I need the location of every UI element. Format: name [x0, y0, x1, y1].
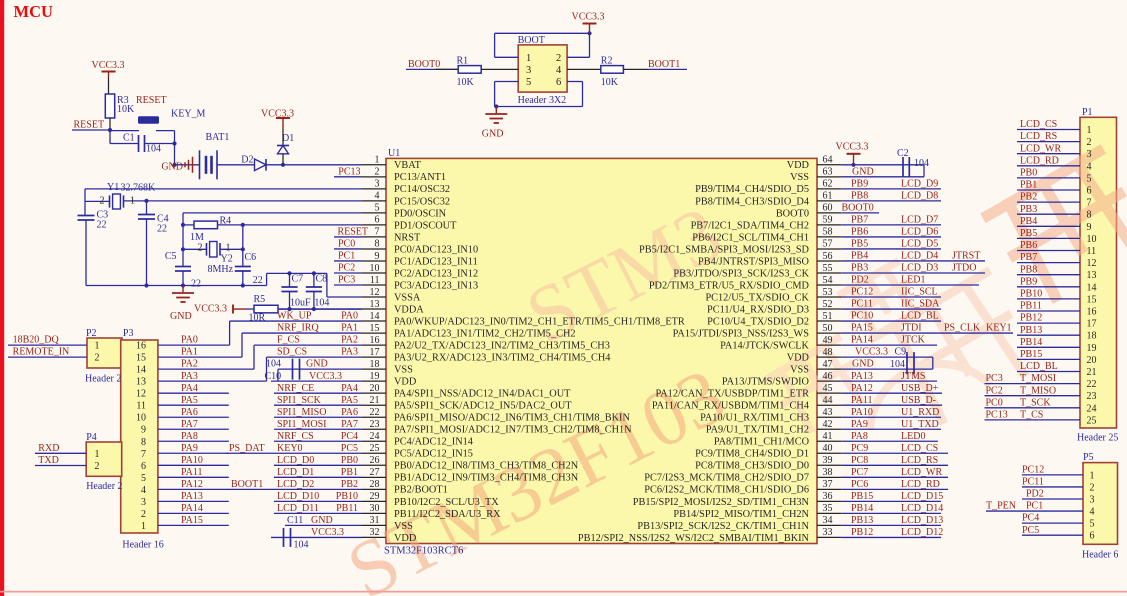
svg-text:LCD_D1: LCD_D1 — [277, 467, 314, 478]
svg-text:PA3: PA3 — [181, 371, 198, 382]
svg-text:LCD_BL: LCD_BL — [1020, 361, 1058, 372]
svg-text:LCD_BL: LCD_BL — [901, 311, 939, 322]
svg-text:PB14: PB14 — [1020, 337, 1042, 348]
svg-text:52: 52 — [823, 299, 833, 310]
svg-text:64: 64 — [823, 155, 833, 166]
svg-text:PA0: PA0 — [181, 335, 198, 346]
svg-text:P5: P5 — [1083, 452, 1094, 463]
svg-text:PC9/TIM8_CH4/SDIO_D1: PC9/TIM8_CH4/SDIO_D1 — [695, 449, 809, 460]
svg-text:PB8: PB8 — [851, 190, 868, 201]
svg-text:PB9: PB9 — [1020, 276, 1037, 287]
svg-text:PB9/TIM4_CH4/SDIO_D5: PB9/TIM4_CH4/SDIO_D5 — [695, 184, 809, 195]
svg-text:Header 3X2: Header 3X2 — [518, 95, 567, 106]
svg-text:PC7: PC7 — [851, 467, 868, 478]
svg-text:18: 18 — [370, 359, 380, 370]
svg-text:7: 7 — [141, 449, 146, 460]
svg-text:2: 2 — [95, 353, 100, 364]
svg-text:32: 32 — [370, 527, 380, 538]
svg-text:R5: R5 — [254, 294, 266, 305]
svg-text:PA8: PA8 — [851, 431, 868, 442]
svg-text:15: 15 — [370, 323, 380, 334]
svg-text:7: 7 — [375, 227, 380, 238]
svg-text:10K: 10K — [117, 104, 135, 115]
svg-text:22: 22 — [191, 279, 201, 290]
svg-text:Header 2: Header 2 — [86, 481, 122, 492]
svg-text:F_CS: F_CS — [277, 335, 300, 346]
svg-text:R1: R1 — [457, 56, 469, 67]
svg-text:PC6/I2S2_MCK/TIM8_CH1/SDIO_D6: PC6/I2S2_MCK/TIM8_CH1/SDIO_D6 — [644, 485, 809, 496]
svg-text:18: 18 — [1087, 331, 1097, 342]
svg-text:PB3/JTDO/SPI3_SCK/I2S3_CK: PB3/JTDO/SPI3_SCK/I2S3_CK — [673, 268, 809, 279]
svg-text:KEY1: KEY1 — [986, 323, 1012, 334]
svg-text:15: 15 — [136, 353, 146, 364]
svg-text:R2: R2 — [601, 56, 613, 67]
svg-text:26: 26 — [370, 455, 380, 466]
svg-text:2: 2 — [100, 196, 105, 207]
svg-text:VSSA: VSSA — [394, 292, 421, 303]
svg-text:GND: GND — [306, 359, 328, 370]
svg-text:PC12/U5_TX/SDIO_CK: PC12/U5_TX/SDIO_CK — [705, 292, 809, 303]
svg-text:6: 6 — [141, 461, 146, 472]
svg-text:4: 4 — [1087, 161, 1092, 172]
svg-text:GND: GND — [852, 166, 874, 177]
svg-text:PA13: PA13 — [851, 371, 873, 382]
svg-text:18B20_DQ: 18B20_DQ — [13, 335, 60, 346]
svg-text:PB0: PB0 — [341, 455, 358, 466]
svg-text:LCD_D12: LCD_D12 — [901, 527, 943, 538]
svg-text:PB5: PB5 — [1020, 228, 1037, 239]
svg-text:50: 50 — [823, 323, 833, 334]
svg-text:LCD_D13: LCD_D13 — [901, 515, 943, 526]
svg-text:RESET: RESET — [337, 227, 368, 238]
svg-text:PA14: PA14 — [181, 503, 203, 514]
svg-text:PC4: PC4 — [1022, 513, 1039, 524]
svg-text:PB11: PB11 — [336, 503, 358, 514]
svg-text:PC13/ANT1: PC13/ANT1 — [394, 172, 446, 183]
svg-text:PB12: PB12 — [851, 527, 873, 538]
svg-text:C8: C8 — [316, 274, 328, 285]
svg-text:16: 16 — [136, 341, 146, 352]
svg-text:VCC3.3: VCC3.3 — [572, 12, 605, 23]
svg-text:STM32F103RCT6: STM32F103RCT6 — [384, 545, 463, 556]
svg-text:P3: P3 — [123, 328, 134, 339]
svg-text:PA5: PA5 — [181, 395, 198, 406]
svg-text:PB6: PB6 — [1020, 240, 1037, 251]
svg-text:4: 4 — [375, 191, 380, 202]
svg-text:PA14/JTCK/SWCLK: PA14/JTCK/SWCLK — [720, 341, 809, 352]
svg-text:PA11: PA11 — [851, 395, 873, 406]
svg-text:12: 12 — [370, 287, 380, 298]
svg-text:TXD: TXD — [38, 455, 59, 466]
svg-text:PB2/BOOT1: PB2/BOOT1 — [394, 485, 448, 496]
svg-text:30: 30 — [370, 503, 380, 514]
svg-text:PC3/ADC123_IN13: PC3/ADC123_IN13 — [394, 280, 478, 291]
svg-text:REMOTE_IN: REMOTE_IN — [13, 347, 70, 358]
svg-text:PC10/U4_TX/SDIO_D2: PC10/U4_TX/SDIO_D2 — [707, 316, 809, 327]
svg-text:PA2: PA2 — [181, 359, 198, 370]
svg-text:9: 9 — [141, 425, 146, 436]
svg-text:PD2: PD2 — [851, 275, 869, 286]
svg-text:GND: GND — [161, 161, 183, 172]
svg-text:PC9: PC9 — [851, 443, 868, 454]
svg-text:PB12: PB12 — [1020, 313, 1042, 324]
svg-text:Header 16: Header 16 — [122, 540, 163, 551]
svg-text:PA11: PA11 — [181, 467, 203, 478]
svg-text:2: 2 — [556, 53, 561, 64]
svg-text:25: 25 — [1087, 415, 1097, 426]
svg-text:LED1: LED1 — [901, 275, 925, 286]
svg-text:PA14: PA14 — [851, 335, 873, 346]
svg-text:JTCK: JTCK — [901, 335, 926, 346]
svg-text:VDD: VDD — [787, 160, 810, 171]
svg-text:2: 2 — [1087, 137, 1092, 148]
svg-text:PB0: PB0 — [1020, 168, 1037, 179]
svg-text:Y1: Y1 — [107, 182, 119, 193]
svg-text:21: 21 — [1087, 367, 1097, 378]
svg-text:PA15/JTDI/SPI3_NSS/I2S3_WS: PA15/JTDI/SPI3_NSS/I2S3_WS — [673, 328, 810, 339]
svg-text:P1: P1 — [1082, 107, 1093, 118]
svg-text:35: 35 — [823, 503, 833, 514]
svg-text:T_SCK: T_SCK — [1020, 397, 1051, 408]
svg-text:LCD_D3: LCD_D3 — [901, 263, 938, 274]
svg-text:PB15/SPI2_MOSI/I2S2_SD/TIM1_CH: PB15/SPI2_MOSI/I2S2_SD/TIM1_CH3N — [633, 497, 810, 508]
svg-text:PA1/ADC123_IN1/TIM2_CH2/TIM5_C: PA1/ADC123_IN1/TIM2_CH2/TIM5_CH2 — [394, 328, 576, 339]
svg-text:60: 60 — [823, 203, 833, 214]
svg-text:SPI1_MOSI: SPI1_MOSI — [277, 419, 326, 430]
svg-text:PB8/TIM4_CH3/SDIO_D4: PB8/TIM4_CH3/SDIO_D4 — [695, 196, 809, 207]
svg-text:PA9/U1_TX/TIM1_CH2: PA9/U1_TX/TIM1_CH2 — [706, 425, 809, 436]
svg-text:45: 45 — [823, 383, 833, 394]
svg-text:39: 39 — [823, 455, 833, 466]
svg-text:PA4: PA4 — [341, 383, 358, 394]
svg-text:22: 22 — [157, 224, 167, 235]
svg-text:KEY0: KEY0 — [277, 443, 303, 454]
svg-text:PC5: PC5 — [341, 443, 358, 454]
svg-text:NRST: NRST — [394, 232, 421, 243]
svg-text:15: 15 — [1087, 294, 1097, 305]
svg-text:17: 17 — [370, 347, 380, 358]
svg-text:PD2: PD2 — [1026, 489, 1044, 500]
svg-text:PB3: PB3 — [1020, 204, 1037, 215]
svg-text:PB2: PB2 — [341, 479, 358, 490]
svg-text:PA9: PA9 — [851, 419, 868, 430]
svg-text:LCD_D11: LCD_D11 — [277, 503, 319, 514]
svg-text:VSS: VSS — [394, 521, 413, 532]
svg-text:LCD_D9: LCD_D9 — [901, 178, 938, 189]
svg-text:1: 1 — [526, 53, 531, 64]
svg-text:PC0/ADC123_IN10: PC0/ADC123_IN10 — [394, 244, 478, 255]
svg-text:9: 9 — [1087, 222, 1092, 233]
svg-text:C6: C6 — [245, 252, 257, 263]
svg-text:4: 4 — [1090, 507, 1095, 518]
svg-text:PB7: PB7 — [1020, 252, 1037, 263]
svg-text:48: 48 — [823, 347, 833, 358]
svg-text:LCD_RD: LCD_RD — [901, 479, 940, 490]
svg-text:PB3: PB3 — [851, 263, 868, 274]
svg-text:8: 8 — [375, 239, 380, 250]
svg-text:20: 20 — [370, 383, 380, 394]
svg-text:PB14: PB14 — [851, 503, 873, 514]
svg-text:13: 13 — [1087, 270, 1097, 281]
svg-text:VCC3.3: VCC3.3 — [836, 141, 869, 152]
svg-text:12: 12 — [136, 389, 146, 400]
svg-text:16: 16 — [1087, 307, 1097, 318]
svg-text:PA2/U2_TX/ADC123_IN2/TIM2_CH3/: PA2/U2_TX/ADC123_IN2/TIM2_CH3/TIM5_CH3 — [394, 341, 610, 352]
svg-text:PB6/I2C1_SCL/TIM4_CH1: PB6/I2C1_SCL/TIM4_CH1 — [692, 232, 809, 243]
svg-text:BOOT0: BOOT0 — [776, 208, 809, 219]
svg-text:6: 6 — [375, 215, 380, 226]
svg-text:44: 44 — [823, 395, 833, 406]
svg-text:41: 41 — [823, 431, 833, 442]
svg-text:14: 14 — [1087, 282, 1097, 293]
svg-text:104: 104 — [314, 298, 329, 309]
svg-text:VCC3.3: VCC3.3 — [261, 109, 294, 120]
svg-text:JTDI: JTDI — [901, 323, 922, 334]
svg-text:4: 4 — [141, 485, 146, 496]
svg-text:11: 11 — [136, 401, 146, 412]
svg-text:LCD_D6: LCD_D6 — [901, 227, 938, 238]
svg-text:MCU: MCU — [14, 2, 53, 21]
svg-text:Header 25: Header 25 — [1077, 433, 1118, 444]
svg-text:BOOT1: BOOT1 — [231, 479, 263, 490]
svg-text:22: 22 — [253, 275, 263, 286]
svg-text:C11: C11 — [287, 515, 303, 526]
svg-text:10uF: 10uF — [290, 298, 311, 309]
svg-text:54: 54 — [823, 275, 833, 286]
svg-text:Header 2: Header 2 — [85, 374, 121, 385]
svg-text:3: 3 — [1090, 495, 1095, 506]
svg-text:LCD_D8: LCD_D8 — [901, 190, 938, 201]
svg-text:P4: P4 — [86, 432, 97, 443]
svg-text:PB7: PB7 — [851, 215, 868, 226]
svg-text:GND: GND — [482, 129, 504, 140]
svg-text:C7: C7 — [292, 274, 304, 285]
svg-text:JTDO: JTDO — [952, 263, 976, 274]
svg-text:56: 56 — [823, 251, 833, 262]
svg-text:BOOT0: BOOT0 — [408, 59, 440, 70]
svg-text:PB10: PB10 — [336, 491, 358, 502]
svg-text:PA8: PA8 — [181, 431, 198, 442]
svg-text:1: 1 — [226, 243, 231, 254]
svg-text:PB10/I2C2_SCL/U3_TX: PB10/I2C2_SCL/U3_TX — [394, 497, 499, 508]
svg-text:31: 31 — [370, 515, 380, 526]
svg-text:1: 1 — [95, 341, 100, 352]
svg-text:C2: C2 — [897, 148, 909, 159]
svg-text:10: 10 — [1087, 234, 1097, 245]
svg-text:PC2/ADC123_IN12: PC2/ADC123_IN12 — [394, 268, 478, 279]
svg-text:5: 5 — [1087, 173, 1092, 184]
svg-text:PB5: PB5 — [851, 239, 868, 250]
svg-text:LCD_D0: LCD_D0 — [277, 455, 314, 466]
svg-text:PC12: PC12 — [1022, 465, 1044, 476]
svg-text:PA6/SPI1_MISO/ADC12_IN6/TIM3_C: PA6/SPI1_MISO/ADC12_IN6/TIM3_CH1/TIM8_BK… — [394, 413, 630, 424]
svg-text:104: 104 — [266, 359, 281, 370]
svg-text:12: 12 — [1087, 258, 1097, 269]
svg-text:PA11/CAN_RX/USBDM/TIM1_CH4: PA11/CAN_RX/USBDM/TIM1_CH4 — [652, 401, 809, 412]
svg-text:VSS: VSS — [790, 365, 809, 376]
svg-text:5: 5 — [1090, 519, 1095, 530]
svg-text:PA5: PA5 — [341, 395, 358, 406]
svg-text:PC5: PC5 — [1022, 525, 1039, 536]
svg-text:1: 1 — [1087, 125, 1092, 136]
svg-text:LCD_RD: LCD_RD — [1020, 155, 1059, 166]
svg-text:KEY_M: KEY_M — [171, 109, 206, 120]
svg-text:14: 14 — [370, 311, 380, 322]
svg-text:10: 10 — [136, 413, 146, 424]
svg-text:PA10/U1_RX/TIM1_CH3: PA10/U1_RX/TIM1_CH3 — [700, 413, 809, 424]
svg-text:PC2: PC2 — [986, 385, 1003, 396]
svg-text:PB14/SPI2_MISO/TIM1_CH2N: PB14/SPI2_MISO/TIM1_CH2N — [673, 509, 809, 520]
svg-text:2: 2 — [95, 461, 100, 472]
svg-text:49: 49 — [823, 335, 833, 346]
svg-text:PB1/ADC12_IN9/TIM3_CH4/TIM8_CH: PB1/ADC12_IN9/TIM3_CH4/TIM8_CH3N — [394, 473, 579, 484]
svg-text:PC6: PC6 — [851, 479, 868, 490]
svg-text:NRF_CE: NRF_CE — [277, 383, 314, 394]
svg-text:VCC3.3: VCC3.3 — [194, 304, 227, 315]
svg-text:PC4: PC4 — [341, 431, 358, 442]
svg-text:PC7/I2S3_MCK/TIM8_CH2/SDIO_D7: PC7/I2S3_MCK/TIM8_CH2/SDIO_D7 — [644, 473, 809, 484]
svg-text:PB4: PB4 — [851, 251, 868, 262]
svg-text:10R: 10R — [249, 313, 266, 324]
svg-text:55: 55 — [823, 263, 833, 274]
svg-text:BOOT: BOOT — [518, 35, 545, 46]
svg-text:VSS: VSS — [394, 365, 413, 376]
svg-text:PC8/TIM8_CH3/SDIO_D0: PC8/TIM8_CH3/SDIO_D0 — [695, 461, 809, 472]
svg-text:3: 3 — [141, 497, 146, 508]
svg-text:SPI1_MISO: SPI1_MISO — [277, 407, 326, 418]
svg-text:BOOT1: BOOT1 — [648, 59, 680, 70]
svg-text:7: 7 — [1087, 198, 1092, 209]
svg-text:PA3: PA3 — [341, 347, 358, 358]
svg-text:LCD_D15: LCD_D15 — [901, 491, 943, 502]
svg-text:37: 37 — [823, 479, 833, 490]
svg-text:LED0: LED0 — [901, 431, 925, 442]
svg-text:27: 27 — [370, 467, 380, 478]
svg-text:23: 23 — [370, 419, 380, 430]
svg-text:62: 62 — [823, 179, 833, 190]
svg-text:NRF_IRQ: NRF_IRQ — [277, 323, 319, 334]
svg-text:VBAT: VBAT — [394, 160, 422, 171]
svg-text:38: 38 — [823, 467, 833, 478]
svg-text:RESET: RESET — [136, 95, 167, 106]
svg-text:40: 40 — [823, 443, 833, 454]
svg-text:32.768K: 32.768K — [121, 183, 157, 194]
svg-text:1: 1 — [141, 521, 146, 532]
svg-text:PA15: PA15 — [181, 515, 203, 526]
svg-text:BAT1: BAT1 — [206, 132, 230, 143]
svg-text:10K: 10K — [601, 77, 619, 88]
svg-text:PA7/SPI1_MOSI/ADC12_IN7/TIM3_C: PA7/SPI1_MOSI/ADC12_IN7/TIM3_CH2/TIM8_CH… — [394, 425, 632, 436]
svg-text:PC0: PC0 — [338, 239, 355, 250]
svg-text:VCC3.3: VCC3.3 — [309, 371, 342, 382]
svg-text:13: 13 — [370, 299, 380, 310]
svg-text:T_PEN: T_PEN — [986, 501, 1016, 512]
svg-text:WK_UP: WK_UP — [277, 311, 312, 322]
svg-text:LCD_WR: LCD_WR — [901, 467, 942, 478]
svg-text:PC1: PC1 — [338, 251, 355, 262]
svg-text:IIC_SCL: IIC_SCL — [901, 287, 938, 298]
svg-text:PC5/ADC12_IN15: PC5/ADC12_IN15 — [394, 449, 473, 460]
svg-text:PB6: PB6 — [851, 227, 868, 238]
svg-text:1: 1 — [95, 449, 100, 460]
svg-text:2: 2 — [198, 243, 203, 254]
svg-text:VCC3.3: VCC3.3 — [855, 347, 888, 358]
svg-text:PA7: PA7 — [181, 419, 198, 430]
svg-text:PC11: PC11 — [1022, 477, 1044, 488]
svg-text:PA15: PA15 — [851, 323, 873, 334]
svg-text:C5: C5 — [165, 251, 177, 262]
svg-text:PC1: PC1 — [1026, 501, 1043, 512]
svg-text:46: 46 — [823, 371, 833, 382]
svg-text:PB15: PB15 — [1020, 349, 1042, 360]
svg-text:19: 19 — [370, 371, 380, 382]
svg-text:PB4: PB4 — [1020, 216, 1037, 227]
svg-text:PC13: PC13 — [338, 166, 360, 177]
svg-text:PA9: PA9 — [181, 443, 198, 454]
svg-text:PB1: PB1 — [341, 467, 358, 478]
svg-text:T_MISO: T_MISO — [1020, 385, 1056, 396]
svg-text:23: 23 — [1087, 391, 1097, 402]
svg-text:PC12: PC12 — [851, 287, 873, 298]
svg-text:VDD: VDD — [787, 353, 810, 364]
svg-text:GND: GND — [311, 515, 333, 526]
svg-text:25: 25 — [370, 443, 380, 454]
svg-text:6: 6 — [1087, 186, 1092, 197]
svg-text:C9: C9 — [895, 347, 907, 358]
svg-text:22: 22 — [97, 220, 107, 231]
svg-text:1: 1 — [375, 155, 380, 166]
svg-text:PC14/OSC32: PC14/OSC32 — [394, 184, 450, 195]
svg-text:PA4: PA4 — [181, 383, 198, 394]
svg-text:2: 2 — [141, 509, 146, 520]
svg-text:104: 104 — [146, 144, 161, 155]
svg-text:USB_D-: USB_D- — [901, 395, 936, 406]
svg-text:VDD: VDD — [394, 533, 417, 544]
svg-text:11: 11 — [370, 275, 380, 286]
svg-text:PS_CLK: PS_CLK — [944, 323, 981, 334]
svg-text:PA1: PA1 — [341, 323, 358, 334]
svg-text:19: 19 — [1087, 343, 1097, 354]
svg-text:PB2: PB2 — [1020, 192, 1037, 203]
svg-text:D2: D2 — [241, 154, 253, 165]
svg-text:PA7: PA7 — [341, 419, 358, 430]
svg-text:33: 33 — [823, 527, 833, 538]
svg-text:LCD_CS: LCD_CS — [1020, 119, 1057, 130]
svg-text:PC2: PC2 — [338, 263, 355, 274]
svg-text:22: 22 — [1087, 379, 1097, 390]
svg-text:3: 3 — [375, 179, 380, 190]
svg-text:24: 24 — [370, 431, 380, 442]
svg-text:VSS: VSS — [790, 172, 809, 183]
svg-text:16: 16 — [370, 335, 380, 346]
svg-text:PA5/SPI1_SCK/ADC12_IN5/DAC2_OU: PA5/SPI1_SCK/ADC12_IN5/DAC2_OUT — [394, 401, 572, 412]
svg-text:LCD_D2: LCD_D2 — [277, 479, 314, 490]
svg-text:VDD: VDD — [394, 377, 417, 388]
svg-text:43: 43 — [823, 407, 833, 418]
svg-text:PA4/SPI1_NSS/ADC12_IN4/DAC1_OU: PA4/SPI1_NSS/ADC12_IN4/DAC1_OUT — [394, 389, 571, 400]
svg-text:PA6: PA6 — [181, 407, 198, 418]
svg-text:PA6: PA6 — [341, 407, 358, 418]
svg-text:PA10: PA10 — [181, 455, 203, 466]
svg-text:3: 3 — [1087, 149, 1092, 160]
svg-text:U1_RXD: U1_RXD — [901, 407, 939, 418]
svg-text:14: 14 — [136, 365, 146, 376]
svg-text:BOOT0: BOOT0 — [842, 202, 874, 213]
svg-text:PA3/U2_RX/ADC123_IN3/TIM2_CH4/: PA3/U2_RX/ADC123_IN3/TIM2_CH4/TIM5_CH4 — [394, 353, 610, 364]
svg-text:GND: GND — [170, 311, 192, 322]
svg-text:PB13: PB13 — [851, 515, 873, 526]
svg-text:20: 20 — [1087, 355, 1097, 366]
